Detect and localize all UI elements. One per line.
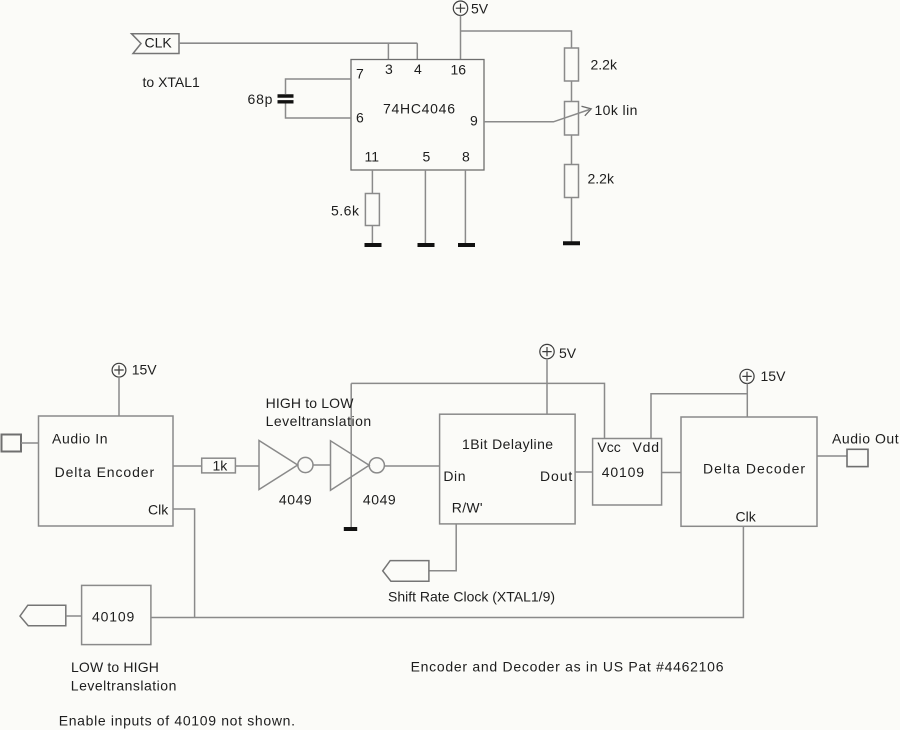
wire CLK to pin4	[179, 42, 417, 44]
block 1Bit Delayline box	[440, 414, 575, 524]
inverter U2 4049 first triangle	[259, 441, 298, 490]
wire 15V to encoder	[118, 377, 120, 416]
wire audio in to encoder	[21, 442, 39, 444]
wire decoder to audio out	[817, 455, 847, 457]
ground bar pin8	[458, 243, 475, 247]
svg-text:16: 16	[451, 62, 467, 78]
wire pin 11 down	[371, 170, 373, 194]
wire rail to 40109 Vcc	[351, 383, 604, 438]
svg-text:10k lin: 10k lin	[595, 102, 638, 118]
wire cap top to pin 7	[286, 79, 352, 94]
svg-text:LOW to HIGH: LOW to HIGH	[71, 659, 159, 675]
svg-text:Shift Rate Clock (XTAL1/9): Shift Rate Clock (XTAL1/9)	[388, 589, 555, 605]
svg-text:15V: 15V	[132, 361, 158, 377]
wire inverter2 supply vertical to ground	[350, 383, 352, 527]
svg-text:Clk: Clk	[736, 509, 757, 525]
svg-text:15V: 15V	[761, 368, 787, 384]
svg-text:Leveltranslation: Leveltranslation	[266, 413, 372, 429]
wire R3 to ground	[371, 226, 373, 244]
wire 40109 out to decoder	[662, 472, 681, 474]
svg-text:4049: 4049	[279, 492, 312, 508]
svg-text:5: 5	[423, 148, 431, 164]
inverter U3 bubble	[369, 458, 384, 473]
wire Dout to 40109	[575, 471, 593, 473]
svg-text:9: 9	[470, 113, 478, 129]
svg-text:68p: 68p	[248, 91, 274, 107]
power +15V symbol decoder	[740, 369, 754, 383]
svg-text:Leveltranslation: Leveltranslation	[71, 678, 177, 694]
wire 40109 Vdd up to 15V rail	[651, 394, 747, 439]
capacitor C1 68p plates	[278, 96, 294, 102]
resistor R1 2.2k upper	[565, 48, 579, 81]
svg-text:Delta Decoder: Delta Decoder	[703, 461, 806, 477]
wire pot to R2	[571, 135, 573, 165]
wire R1 to pot	[571, 81, 573, 102]
svg-text:Vdd: Vdd	[633, 439, 660, 455]
svg-text:Enable inputs of 40109 not sho: Enable inputs of 40109 not shown.	[59, 712, 296, 728]
wire pin 8 down	[464, 170, 466, 243]
svg-text:4049: 4049	[363, 492, 396, 508]
svg-text:1Bit Delayline: 1Bit Delayline	[462, 436, 553, 452]
wire encoder out to 1k	[173, 465, 202, 467]
svg-text:Audio Out: Audio Out	[832, 430, 899, 446]
svg-text:40109: 40109	[602, 464, 645, 480]
block 40109 level translator box	[593, 439, 662, 506]
pot wiper arrowhead	[582, 106, 592, 116]
svg-text:to XTAL1: to XTAL1	[143, 74, 201, 90]
svg-text:R/W': R/W'	[452, 500, 483, 516]
wire pin 9 to pot arrow	[484, 110, 590, 122]
ground bar right chain	[563, 241, 580, 245]
block 40109 low-to-high box	[82, 585, 151, 644]
svg-text:5V: 5V	[471, 0, 489, 16]
power +15V symbol encoder	[112, 363, 126, 377]
IC U1 74HC4046 box	[351, 60, 484, 171]
svg-text:5.6k: 5.6k	[331, 202, 360, 218]
svg-text:7: 7	[356, 66, 364, 82]
svg-text:5V: 5V	[559, 345, 577, 361]
svg-text:Din: Din	[443, 468, 466, 484]
input flag CLK	[132, 34, 180, 54]
wire pin 5 down	[424, 170, 426, 243]
flag input bottom left	[20, 605, 66, 626]
resistor R3 5.6k	[365, 194, 379, 226]
wire bubble2 to delayline Din	[384, 465, 439, 467]
svg-text:HIGH to LOW: HIGH to LOW	[266, 395, 355, 411]
svg-text:Clk: Clk	[148, 502, 169, 518]
wire pin 3 stub	[387, 43, 389, 59]
flag Shift Rate Clock	[383, 561, 429, 582]
wire 5V to delayline	[546, 359, 548, 414]
svg-text:1k: 1k	[213, 458, 229, 474]
wire pin 4 stub	[416, 43, 418, 59]
wire 5V down to pin 16	[460, 16, 462, 60]
svg-text:CLK: CLK	[145, 35, 173, 51]
resistor R4 1k	[202, 458, 236, 473]
svg-text:6: 6	[356, 110, 364, 126]
svg-text:2.2k: 2.2k	[588, 171, 615, 187]
potentiometer 10k lin body	[565, 102, 579, 136]
wire bubble1 to inverter2	[313, 464, 331, 466]
svg-text:40109: 40109	[92, 609, 135, 625]
svg-text:Dout: Dout	[540, 468, 573, 484]
inverter U3 4049 second triangle	[331, 441, 370, 491]
ground bar inverter2	[344, 527, 357, 531]
svg-text:Delta Encoder: Delta Encoder	[55, 464, 155, 480]
terminal Audio Out square	[847, 449, 868, 466]
terminal Audio In square	[2, 435, 22, 452]
wire 1k to inverter1	[236, 465, 259, 467]
svg-text:Audio In: Audio In	[52, 431, 108, 447]
ground bar pin5	[418, 243, 435, 247]
wire cap bottom to pin 6	[286, 104, 352, 119]
wire stub above 5V	[460, 0, 462, 1]
inverter U2 bubble	[298, 457, 313, 472]
resistor R2 2.2k lower	[565, 165, 579, 198]
wire R2 to ground	[571, 198, 573, 242]
power +5V symbol delayline	[540, 344, 554, 358]
svg-text:Encoder and Decoder as in US P: Encoder and Decoder as in US Pat #446210…	[411, 659, 725, 675]
svg-text:3: 3	[385, 61, 393, 77]
block Delta Decoder box	[681, 417, 817, 526]
svg-text:2.2k: 2.2k	[591, 57, 618, 73]
wire delayline R/W to shift flag	[429, 524, 456, 571]
svg-text:Vcc: Vcc	[597, 439, 620, 455]
svg-text:4: 4	[414, 61, 422, 77]
power +5V symbol top	[453, 1, 467, 15]
svg-text:11: 11	[365, 148, 380, 164]
svg-text:8: 8	[462, 148, 470, 164]
ground bar pin11	[365, 243, 382, 247]
svg-text:74HC4046: 74HC4046	[383, 101, 456, 117]
wire flag to 40109 block	[66, 615, 82, 617]
wire 15V to decoder	[746, 384, 748, 418]
wire decoder Clk down and bus to 40109	[151, 526, 743, 617]
wire encoder Clk	[173, 509, 195, 618]
wire 5V branch to resistor chain	[461, 31, 572, 48]
block Delta Encoder box	[39, 416, 174, 526]
